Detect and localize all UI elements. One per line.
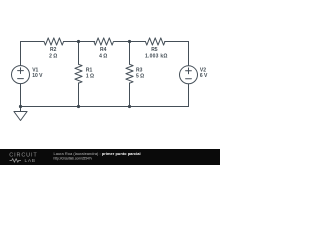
svg-text:10 V: 10 V — [32, 73, 43, 79]
svg-text:LAB: LAB — [25, 158, 36, 164]
svg-text:R5: R5 — [151, 47, 158, 53]
svg-text:6 V: 6 V — [200, 73, 208, 79]
svg-text:1 Ω: 1 Ω — [86, 73, 94, 79]
svg-text:R2: R2 — [50, 47, 57, 53]
svg-text:http://circuitlab.com/c5547v: http://circuitlab.com/c5547v — [54, 156, 93, 160]
svg-text:2 Ω: 2 Ω — [49, 54, 57, 60]
svg-text:CIRCUIT: CIRCUIT — [9, 153, 37, 159]
svg-text:4 Ω: 4 Ω — [99, 54, 107, 60]
svg-text:5 Ω: 5 Ω — [136, 73, 144, 79]
svg-text:R4: R4 — [100, 47, 107, 53]
svg-text:1.003 kΩ: 1.003 kΩ — [145, 54, 168, 60]
